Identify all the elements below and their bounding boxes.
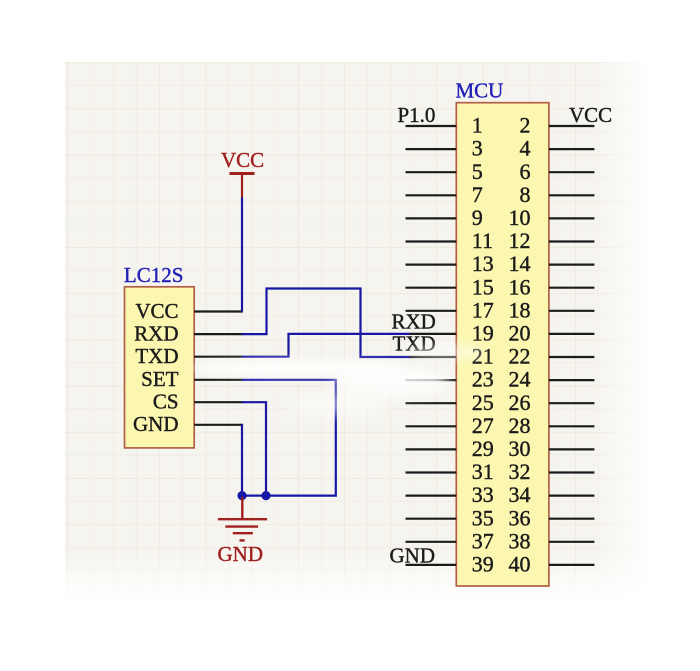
junction dot at CS vertical (261, 491, 270, 500)
ground symbol bar 2 (225, 525, 258, 527)
svg-text:SET: SET (141, 367, 179, 391)
LC12S pin RXD stub wire (194, 333, 243, 335)
svg-text:26: 26 (509, 390, 531, 415)
ground symbol stem (241, 497, 243, 519)
svg-text:5: 5 (472, 159, 483, 184)
svg-text:RXD: RXD (392, 309, 436, 333)
svg-text:39: 39 (472, 552, 494, 577)
svg-text:34: 34 (509, 482, 531, 507)
MCU pin 18 stub wire (549, 310, 595, 312)
svg-text:7: 7 (472, 182, 483, 207)
MCU pin 31 stub wire (406, 471, 457, 473)
svg-text:16: 16 (509, 274, 531, 299)
MCU pin 25 stub wire (406, 402, 457, 404)
MCU pin 9 stub wire (406, 217, 457, 219)
white smudge artifact band (192, 360, 408, 376)
white smudge artifact blob (334, 366, 450, 396)
svg-text:TXD: TXD (135, 344, 178, 368)
svg-text:P1.0: P1.0 (398, 103, 436, 127)
MCU pin 33 stub wire (406, 495, 457, 497)
MCU pin 26 stub wire (549, 402, 595, 404)
LC12S pin VCC stub wire (194, 310, 243, 312)
MCU pin 5 stub wire (406, 171, 457, 173)
wire GND net: LC12S GND pin down to ground junction (241, 425, 243, 496)
MCU pin 16 stub wire (549, 287, 595, 289)
svg-text:35: 35 (472, 505, 494, 530)
svg-text:MCU: MCU (456, 79, 504, 103)
svg-text:VCC: VCC (135, 299, 178, 323)
svg-text:2: 2 (520, 113, 531, 138)
MCU pin 35 stub wire (406, 518, 457, 520)
svg-text:GND: GND (390, 543, 436, 567)
svg-text:30: 30 (509, 436, 531, 461)
svg-text:27: 27 (472, 413, 494, 438)
MCU pin 22 stub wire (549, 356, 595, 358)
svg-text:GND: GND (133, 412, 179, 436)
svg-text:11: 11 (472, 228, 493, 253)
MCU pin 30 stub wire (549, 448, 595, 450)
svg-text:36: 36 (509, 505, 531, 530)
svg-text:29: 29 (472, 436, 494, 461)
wire RXD net: LC12S RXD pin up and over to MCU pin 21 (242, 289, 410, 358)
MCU pin 32 stub wire (549, 471, 595, 473)
svg-text:3: 3 (472, 136, 483, 161)
svg-text:22: 22 (509, 344, 531, 369)
MCU pin 23 stub wire (406, 379, 457, 381)
MCU pin 15 stub wire (406, 287, 457, 289)
ic LC12S component body (125, 287, 195, 448)
svg-text:LC12S: LC12S (124, 263, 184, 287)
MCU pin 38 stub wire (549, 541, 595, 543)
ground symbol bar 4 (240, 539, 245, 541)
MCU pin 11 stub wire (406, 240, 457, 242)
svg-text:32: 32 (509, 459, 531, 484)
MCU pin 7 stub wire (406, 194, 457, 196)
MCU pin 27 stub wire (406, 425, 457, 427)
ground symbol bar 3 (233, 532, 253, 534)
MCU pin 2 stub wire (549, 125, 595, 127)
LC12S pin SET stub wire (194, 379, 243, 381)
svg-text:4: 4 (520, 136, 531, 161)
svg-text:10: 10 (509, 205, 531, 230)
svg-text:14: 14 (509, 251, 531, 276)
svg-text:15: 15 (472, 274, 494, 299)
svg-text:18: 18 (509, 297, 531, 322)
wire VCC net: vertical from VCC power symbol to LC12S VCC pin (241, 197, 243, 312)
svg-text:19: 19 (472, 321, 494, 346)
sheet edge fade bottom (65, 548, 652, 601)
wire TXD net: LC12S TXD pin up and over to MCU pin 19 (242, 334, 410, 357)
LC12S pin TXD stub wire (194, 356, 243, 358)
MCU pin 28 stub wire (549, 425, 595, 427)
LC12S pin CS stub wire (194, 401, 243, 403)
svg-text:VCC: VCC (221, 148, 264, 172)
ic MCU component body (456, 103, 549, 586)
svg-text:GND: GND (218, 542, 264, 566)
VCC power symbol stem (241, 175, 243, 198)
MCU pin 19 stub wire (409, 333, 457, 335)
MCU pin 36 stub wire (549, 518, 595, 520)
svg-text:37: 37 (472, 528, 494, 553)
svg-text:6: 6 (520, 159, 531, 184)
MCU pin 14 stub wire (549, 264, 595, 266)
MCU pin 4 stub wire (549, 148, 595, 150)
svg-text:RXD: RXD (134, 321, 178, 345)
schematic sheet background (65, 62, 652, 601)
svg-text:CS: CS (153, 390, 179, 414)
MCU pin 29 stub wire (406, 448, 457, 450)
wire SET net: LC12S SET pin right, down and back to ground junction (241, 380, 336, 496)
MCU pin 3 stub wire (406, 148, 457, 150)
MCU pin 40 stub wire (549, 564, 595, 566)
svg-text:23: 23 (472, 367, 494, 392)
svg-text:38: 38 (509, 528, 531, 553)
svg-text:33: 33 (472, 482, 494, 507)
svg-text:8: 8 (520, 182, 531, 207)
svg-text:9: 9 (472, 205, 483, 230)
MCU pin 12 stub wire (549, 240, 595, 242)
svg-text:24: 24 (509, 367, 531, 392)
svg-text:13: 13 (472, 251, 494, 276)
MCU pin 17 stub wire (406, 310, 457, 312)
svg-text:12: 12 (509, 228, 531, 253)
MCU pin 20 stub wire (549, 333, 595, 335)
LC12S pin GND stub wire (194, 424, 243, 426)
svg-text:17: 17 (472, 297, 494, 322)
MCU pin 6 stub wire (549, 171, 595, 173)
white smudge artifact right (408, 343, 484, 361)
MCU pin 24 stub wire (549, 379, 595, 381)
svg-text:20: 20 (509, 321, 531, 346)
svg-text:1: 1 (472, 113, 483, 138)
MCU pin 21 stub wire (409, 356, 457, 358)
svg-text:40: 40 (509, 552, 531, 577)
junction dot at GND vertical (237, 491, 246, 500)
svg-text:31: 31 (472, 459, 494, 484)
white smudge artifact lower (292, 393, 388, 415)
ground symbol bar 1 (218, 518, 267, 520)
MCU pin 34 stub wire (549, 495, 595, 497)
MCU pin 10 stub wire (549, 217, 595, 219)
svg-text:28: 28 (509, 413, 531, 438)
MCU pin 39 stub wire (406, 564, 457, 566)
MCU pin 13 stub wire (406, 264, 457, 266)
sheet edge fade right (592, 62, 652, 601)
VCC power symbol bar (230, 172, 255, 175)
MCU pin 1 stub wire (406, 125, 457, 127)
MCU pin 37 stub wire (406, 541, 457, 543)
wire CS net: LC12S CS pin right and down to ground junction (242, 402, 266, 495)
MCU pin 8 stub wire (549, 194, 595, 196)
svg-text:25: 25 (472, 390, 494, 415)
svg-text:VCC: VCC (569, 103, 612, 127)
